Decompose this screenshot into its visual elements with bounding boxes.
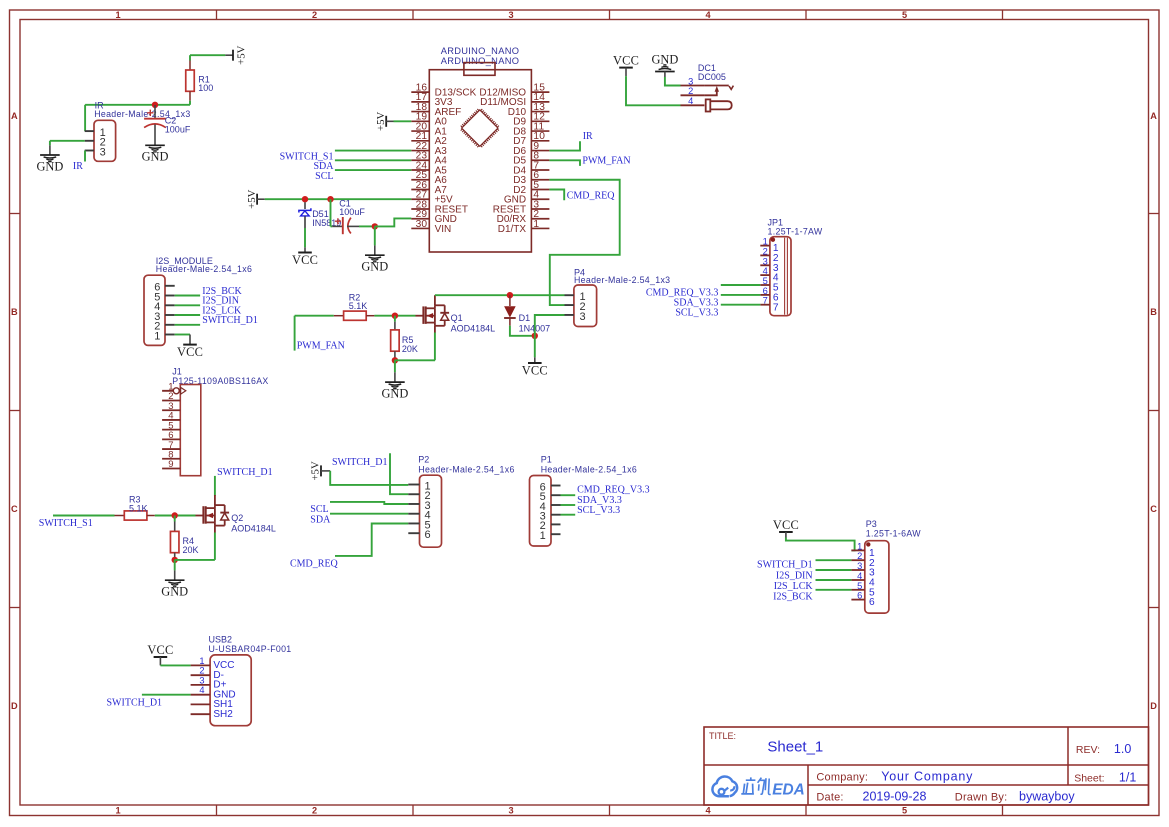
ground GND (R4): [174, 570, 176, 580]
svg-text:P1: P1: [541, 454, 552, 464]
power VCC (P3): [779, 531, 793, 533]
svg-text:IR: IR: [73, 161, 83, 172]
svg-text:EDA: EDA: [772, 781, 805, 798]
connector P4 body: [574, 285, 597, 327]
connector P1 body: [530, 476, 552, 547]
wire Q1 drain to P4 pin1: [435, 294, 565, 296]
I2S_MODULE pins: [165, 285, 175, 287]
svg-text:C: C: [11, 504, 18, 514]
wire +5V rail to pin27: [265, 198, 412, 200]
frame row ticks: [10, 213, 21, 215]
connector DC1 barrel jack symbol: [704, 85, 728, 87]
J1 pins 1-9: [162, 390, 180, 392]
svg-text:SDA: SDA: [310, 515, 331, 526]
wire GND to DC1 pin3: [665, 77, 681, 86]
JP1 pin1 mark: [771, 238, 775, 242]
svg-text:GND: GND: [651, 53, 678, 67]
svg-text:3: 3: [508, 806, 513, 816]
svg-text:A: A: [11, 111, 18, 121]
USB2 pins: [191, 664, 211, 666]
power +5V (R1): [232, 50, 234, 61]
wire VCC to DC1 pin4: [626, 76, 681, 105]
junction C1-GND: [372, 223, 378, 229]
svg-text:D: D: [11, 701, 18, 711]
svg-text:PWM_FAN: PWM_FAN: [582, 156, 630, 167]
wire SDA_V3.3 (P1): [561, 504, 576, 506]
wire CMD_REQ_V3.3 (P1): [561, 494, 576, 496]
wire IR net stub pin3: [84, 151, 86, 162]
svg-text:1: 1: [115, 806, 120, 816]
svg-text:I2S_BCK: I2S_BCK: [773, 592, 813, 603]
svg-text:D1/TX: D1/TX: [498, 224, 527, 235]
usb connector mark: [464, 63, 495, 76]
wire I2S_DIN (P3): [816, 569, 852, 571]
svg-text:GND: GND: [381, 387, 408, 401]
component U1 ARDUINO_NANO body: [429, 70, 531, 252]
svg-text:+5V: +5V: [310, 461, 322, 480]
svg-text:2019-09-28: 2019-09-28: [863, 790, 927, 804]
svg-text:IR: IR: [583, 131, 593, 142]
svg-text:1: 1: [533, 219, 539, 230]
wire SCL (A5): [335, 169, 411, 171]
svg-text:100: 100: [198, 83, 213, 93]
svg-text:3: 3: [688, 76, 693, 86]
svg-text:CMD_REQ_V3.3: CMD_REQ_V3.3: [577, 485, 650, 496]
svg-text:Company:: Company:: [816, 771, 868, 783]
P4 pins: [565, 294, 574, 296]
svg-text:+5V: +5V: [375, 111, 387, 130]
wire GND stem (C1): [374, 226, 376, 245]
svg-text:2: 2: [199, 666, 204, 676]
wire D3 to P4 pin2: [549, 180, 619, 305]
svg-text:GND: GND: [36, 159, 63, 173]
wire SWITCH_D1 (I2S): [175, 324, 200, 326]
svg-text:6: 6: [869, 597, 875, 608]
svg-text:4: 4: [763, 266, 768, 276]
diode D1: [509, 295, 511, 306]
svg-text:5.1K: 5.1K: [349, 301, 368, 311]
ground GND (DC1): [655, 71, 675, 73]
svg-text:I2S_DIN: I2S_DIN: [776, 570, 813, 581]
svg-text:1: 1: [115, 10, 120, 20]
wire R3 to Q2 gate: [155, 515, 196, 517]
wire D1 to VCC junction: [510, 326, 535, 336]
power VCC (D51): [304, 247, 306, 252]
resistor R4: [174, 516, 176, 522]
JP1 inner lines: [784, 238, 786, 315]
wire R2 to Q1 gate: [374, 315, 415, 317]
J1 pin1 arrow mark: [181, 387, 186, 394]
svg-text:3: 3: [199, 675, 204, 685]
wire IR-header rail: [85, 104, 190, 106]
svg-text:SWITCH_D1: SWITCH_D1: [757, 560, 813, 571]
svg-text:20K: 20K: [183, 545, 199, 555]
power VCC (DC1): [619, 67, 633, 69]
junction R5 top: [392, 313, 398, 319]
svg-text:SWITCH_S1: SWITCH_S1: [39, 518, 93, 529]
svg-text:P2: P2: [418, 454, 429, 464]
junction R4 top: [172, 512, 178, 518]
svg-text:VCC: VCC: [613, 53, 639, 67]
svg-text:3: 3: [857, 561, 862, 571]
connector USB2 body: [210, 655, 251, 726]
svg-text:CMD_REQ: CMD_REQ: [567, 190, 616, 201]
svg-text:Sheet_1: Sheet_1: [767, 739, 823, 756]
svg-text:1.25T-1-6AW: 1.25T-1-6AW: [866, 529, 921, 539]
svg-text:6: 6: [425, 529, 431, 541]
svg-text:1: 1: [154, 330, 160, 342]
svg-text:Q2: Q2: [231, 513, 243, 523]
svg-text:5: 5: [763, 276, 768, 286]
wire C1 to GND branch: [359, 225, 375, 227]
transistor Q1: [416, 315, 424, 317]
svg-text:Drawn By:: Drawn By:: [955, 792, 1008, 804]
svg-text:20K: 20K: [402, 344, 418, 354]
svg-text:4: 4: [705, 10, 711, 20]
svg-text:5: 5: [902, 10, 907, 20]
svg-text:7: 7: [773, 302, 779, 313]
svg-text:D1: D1: [519, 313, 531, 323]
svg-text:5: 5: [857, 581, 862, 591]
svg-text:1/1: 1/1: [1119, 770, 1136, 784]
svg-text:4: 4: [199, 685, 204, 695]
junction C2 rail: [152, 102, 158, 108]
junction R4 bottom: [172, 557, 178, 563]
svg-text:USB2: USB2: [209, 634, 233, 644]
svg-text:SWITCH_D1: SWITCH_D1: [217, 467, 273, 478]
wire VCC to USB2 pin1: [160, 664, 190, 666]
chip diamond mark: [462, 110, 498, 146]
wire CMD_REQ (D2): [549, 190, 564, 201]
P1 pins: [551, 485, 561, 487]
wire R1 top to +5V: [190, 54, 225, 56]
svg-text:3: 3: [508, 10, 513, 20]
svg-text:3: 3: [580, 311, 586, 323]
EasyEDA logo cloud: [712, 776, 737, 796]
diode D51: [304, 202, 306, 209]
wire SDA to P2 pin4: [330, 513, 408, 515]
svg-text:AOD4184L: AOD4184L: [451, 324, 496, 334]
svg-text:4: 4: [857, 571, 862, 581]
wire PWM_FAN to R2: [294, 316, 296, 351]
wire I2S_BCK (P3): [816, 589, 852, 591]
power VCC (D1): [528, 362, 542, 364]
svg-text:Date:: Date:: [816, 792, 843, 804]
svg-text:3: 3: [100, 146, 106, 158]
wire GND stem (R4): [174, 560, 176, 571]
svg-text:bywayboy: bywayboy: [1019, 790, 1075, 804]
wire IR (D6): [549, 141, 580, 150]
wire Q1 source down: [434, 333, 436, 361]
svg-text:SCL_V3.3: SCL_V3.3: [577, 505, 620, 516]
svg-text:PWM_FAN: PWM_FAN: [297, 340, 345, 351]
wire I2S_LCK (P3): [816, 579, 852, 581]
svg-text:4: 4: [705, 806, 711, 816]
svg-text:2: 2: [763, 246, 768, 256]
transistor Q2: [196, 515, 204, 517]
wire CMD_REQ_V3.3 (JP1): [721, 284, 761, 286]
svg-text:U-USBAR04P-F001: U-USBAR04P-F001: [209, 644, 292, 654]
power +5V (P2): [320, 465, 322, 476]
svg-text:1.0: 1.0: [1114, 742, 1131, 756]
wire VCC to P3 pin1: [786, 538, 855, 551]
power VCC (I2S): [183, 344, 197, 346]
power +5V (rail): [256, 194, 258, 205]
svg-text:SCL: SCL: [310, 504, 328, 515]
wire SWITCH_D1 to Q2 drain: [214, 476, 216, 496]
junction R5 bottom: [392, 357, 398, 363]
wire SDA (A4): [335, 159, 411, 161]
svg-text:AOD4184L: AOD4184L: [231, 524, 276, 534]
wire +5V to P2 pin1: [330, 471, 408, 485]
svg-text:I2S_LCK: I2S_LCK: [774, 581, 814, 592]
svg-text:100uF: 100uF: [165, 124, 191, 134]
svg-text:SH2: SH2: [213, 709, 233, 720]
wire SCL to P2 pin3: [330, 502, 408, 504]
connector P3 body: [865, 541, 889, 613]
wire PWM_FAN (D5): [549, 160, 580, 166]
svg-text:VIN: VIN: [435, 224, 452, 235]
connector IR body: [94, 120, 116, 161]
svg-text:B: B: [11, 307, 18, 317]
svg-text:ARDUINO_NANO: ARDUINO_NANO: [441, 46, 520, 56]
svg-text:2: 2: [312, 806, 317, 816]
svg-text:6: 6: [763, 286, 768, 296]
wire I2S_LCK: [175, 314, 200, 316]
ground GND (IR header): [49, 145, 51, 155]
ground GND (C1): [374, 245, 376, 255]
svg-text:Header-Male-2.54_1x6: Header-Male-2.54_1x6: [156, 264, 252, 274]
svg-text:GND: GND: [361, 260, 388, 274]
svg-text:CMD_REQ: CMD_REQ: [290, 558, 339, 569]
svg-text:VCC: VCC: [147, 643, 173, 657]
svg-text:1: 1: [857, 541, 862, 551]
svg-text:1.25T-1-7AW: 1.25T-1-7AW: [768, 227, 823, 237]
svg-text:VCC: VCC: [292, 253, 318, 267]
svg-text:DC005: DC005: [698, 72, 726, 82]
svg-text:1: 1: [199, 656, 204, 666]
svg-text:30: 30: [416, 219, 428, 230]
power +5V (A0 pin19): [385, 116, 387, 127]
svg-text:REV:: REV:: [1076, 744, 1100, 756]
wire SCL_V3.3 (JP1): [721, 304, 761, 306]
wire SCL_V3.3 (P1): [561, 514, 576, 516]
svg-text:+5V: +5V: [235, 45, 247, 64]
svg-text:GND: GND: [161, 585, 188, 599]
svg-text:Your Company: Your Company: [881, 769, 973, 783]
svg-text:D: D: [1150, 701, 1157, 711]
svg-text:7: 7: [763, 296, 768, 306]
frame column ticks: [216, 10, 218, 20]
connector P2 body: [420, 475, 442, 547]
svg-text:SCL_V3.3: SCL_V3.3: [675, 308, 718, 319]
resistor R2: [295, 315, 334, 317]
wire P4 pin3: [535, 315, 565, 336]
wire R4 to Q2 source: [175, 559, 215, 561]
wire SWITCH_D1 to USB2 pin4: [142, 694, 191, 696]
svg-text:SWITCH_D1: SWITCH_D1: [107, 697, 163, 708]
svg-text:B: B: [1150, 307, 1157, 317]
wire I2S pin1 to VCC: [175, 334, 190, 336]
wire to pin29: [375, 218, 412, 226]
wire I2S_BCK: [175, 295, 200, 297]
svg-text:2: 2: [857, 551, 862, 561]
wire R5 to Q1 source: [395, 359, 435, 361]
svg-text:1: 1: [763, 237, 768, 247]
svg-text:Sheet:: Sheet:: [1074, 773, 1104, 785]
P3 pins 1-6: [851, 549, 864, 551]
junction VCC (D1): [532, 333, 538, 339]
ground GND (C2): [154, 136, 156, 146]
connector I2S_MODULE body: [144, 275, 165, 345]
junction C1: [327, 196, 333, 202]
wire VCC stem (D1): [534, 336, 536, 358]
title block dividers: [704, 764, 1149, 766]
svg-text:2: 2: [688, 86, 693, 96]
connector J1 body: [180, 385, 201, 476]
svg-text:A: A: [1150, 111, 1157, 121]
svg-text:SCL: SCL: [315, 171, 333, 182]
capacitor C1: [330, 199, 332, 226]
wire CMD_REQ to P2 pin5: [335, 524, 408, 556]
wire SWITCH_S1 (A3): [335, 150, 411, 152]
svg-text:Q1: Q1: [451, 313, 463, 323]
svg-text:5.1K: 5.1K: [129, 504, 148, 514]
svg-text:SWITCH_D1: SWITCH_D1: [332, 457, 388, 468]
svg-text:5: 5: [902, 806, 907, 816]
U1 left pins 16-30: [411, 91, 429, 93]
resistor R3: [53, 515, 115, 517]
svg-text:SWITCH_D1: SWITCH_D1: [202, 315, 258, 326]
title block outline: [704, 727, 1149, 805]
P3 pin1 mark: [866, 542, 870, 546]
wire SDA_V3.3 (JP1): [721, 294, 761, 296]
wire I2S_DIN: [175, 304, 200, 306]
svg-text:6: 6: [857, 591, 862, 601]
resistor R5: [394, 316, 396, 322]
svg-text:Header-Male-2.54_1x6: Header-Male-2.54_1x6: [418, 464, 514, 474]
svg-text:3: 3: [763, 256, 768, 266]
JP1 pins 1-7: [760, 245, 770, 247]
svg-text:ARDUINO_NANO: ARDUINO_NANO: [441, 56, 520, 66]
svg-text:TITLE:: TITLE:: [709, 731, 736, 741]
svg-text:+5V: +5V: [246, 189, 258, 208]
svg-text:9: 9: [168, 459, 173, 470]
svg-text:GND: GND: [142, 150, 169, 164]
wire SWITCH_D1 to P2 pin2: [390, 453, 408, 494]
svg-text:Header-Male-2.54_1x6: Header-Male-2.54_1x6: [541, 464, 637, 474]
P2 pins: [408, 484, 419, 486]
wire GND stem (R5): [394, 360, 396, 372]
svg-text:VCC: VCC: [522, 363, 548, 377]
ground GND (R5): [394, 372, 396, 382]
svg-text:4: 4: [688, 96, 693, 106]
wire Q2 source down: [214, 533, 216, 560]
svg-text:1: 1: [540, 530, 546, 542]
capacitor C2: [154, 105, 156, 118]
U1 right pins 15-1: [531, 91, 549, 93]
svg-text:C: C: [1150, 504, 1157, 514]
DC1 pins: [681, 85, 705, 87]
connector JP1 body: [770, 237, 791, 316]
svg-text:100uF: 100uF: [339, 207, 365, 217]
wire A0 +5V: [394, 120, 412, 122]
junction D51: [302, 196, 308, 202]
resistor R1: [189, 55, 191, 60]
svg-text:VCC: VCC: [773, 518, 799, 532]
J1 pin1 circle: [173, 388, 179, 394]
wire GND to IR pin2: [50, 140, 85, 142]
svg-text:Header-Male-2.54_1x3: Header-Male-2.54_1x3: [574, 275, 670, 285]
power VCC (USB2): [154, 656, 168, 658]
junction D1 top: [507, 292, 513, 298]
IR header pins: [85, 130, 94, 132]
EasyEDA logo text 立创: [741, 777, 755, 794]
svg-text:VCC: VCC: [177, 345, 203, 359]
wire SWITCH_D1 (P3): [816, 559, 852, 561]
svg-text:2: 2: [312, 10, 317, 20]
